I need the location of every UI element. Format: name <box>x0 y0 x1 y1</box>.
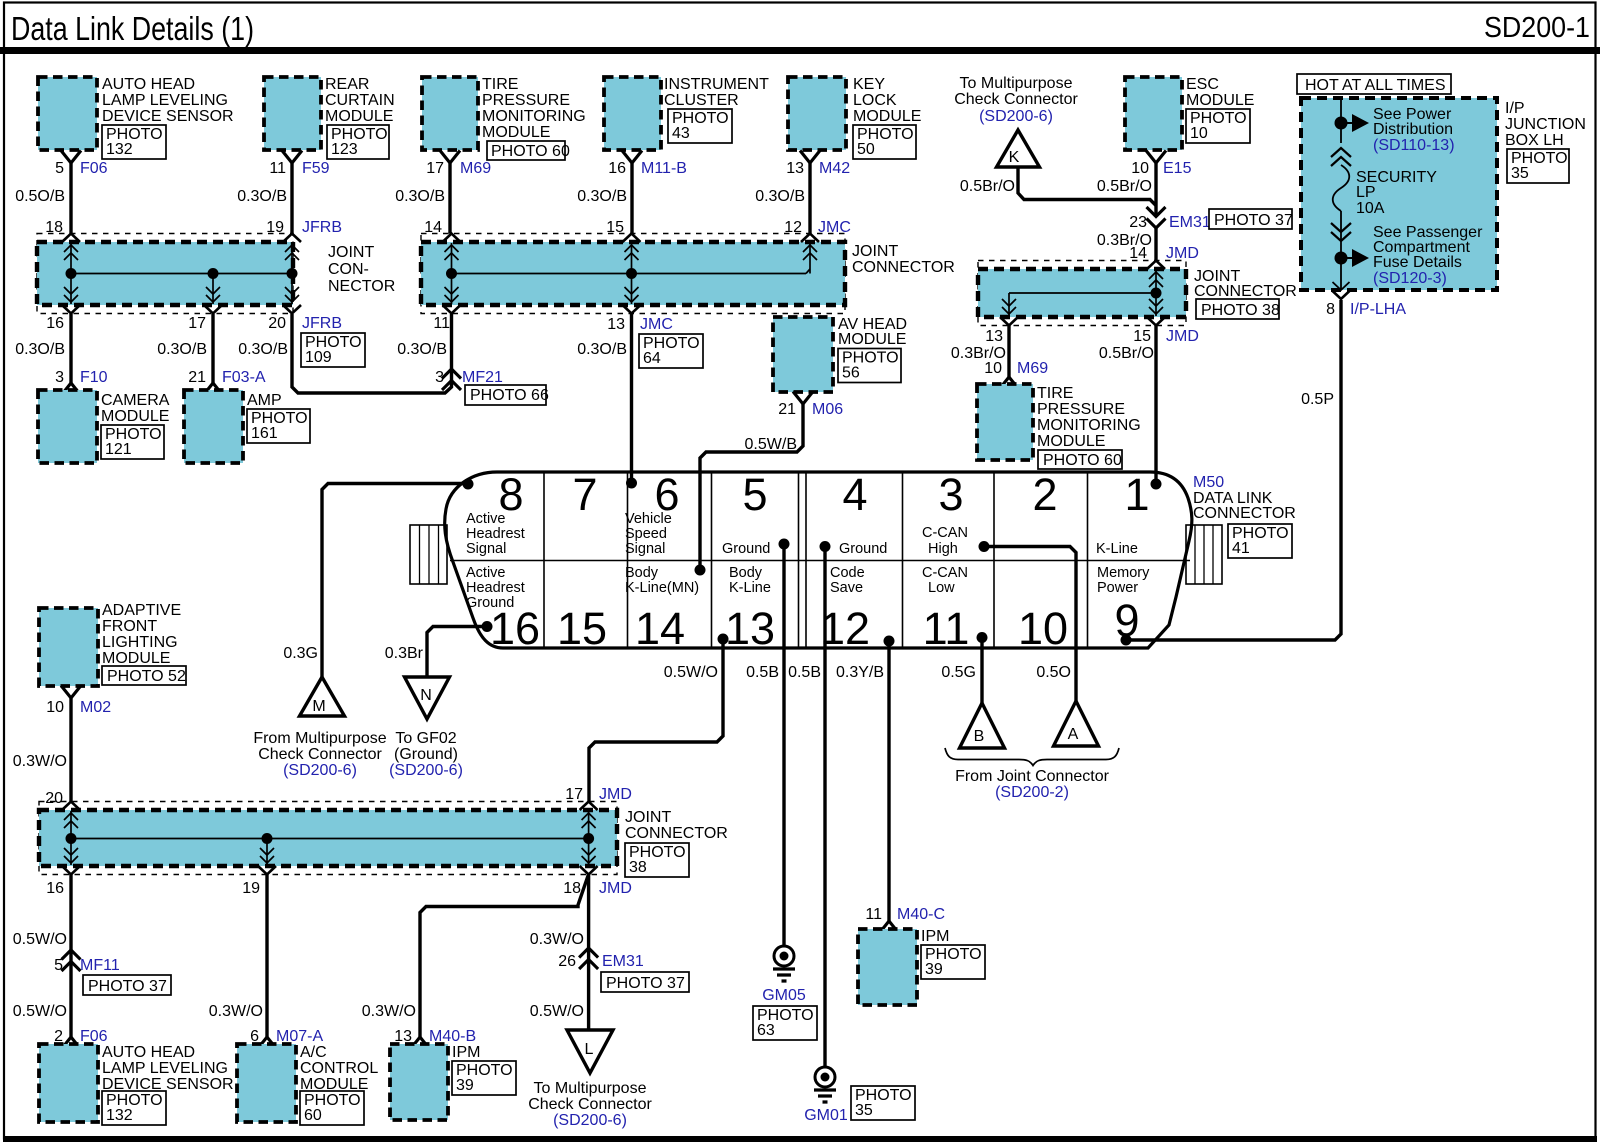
svg-text:0.3W/O: 0.3W/O <box>209 1003 263 1020</box>
svg-text:17: 17 <box>565 786 583 803</box>
svg-text:109: 109 <box>305 349 332 366</box>
svg-text:0.5W/O: 0.5W/O <box>664 664 718 681</box>
joint connector JMD (bottom), PHOTO 38 <box>39 802 728 878</box>
wire 0.3W/O from JMD pin 18 to EM31 pin 26 <box>530 875 589 1031</box>
wire 0.5W/O joint connector pin 16 to MF11 <box>13 875 71 1038</box>
svg-text:10: 10 <box>46 699 64 716</box>
svg-text:REAR: REAR <box>325 76 369 93</box>
svg-text:MODULE: MODULE <box>325 108 393 125</box>
svg-text:Distribution: Distribution <box>1373 121 1453 138</box>
svg-text:14: 14 <box>1129 245 1147 262</box>
wire 0.3W/O joint connector pin 19 to M07-A <box>209 875 267 1038</box>
svg-text:Ground: Ground <box>722 541 770 557</box>
svg-text:E15: E15 <box>1163 160 1192 177</box>
svg-text:Code: Code <box>830 565 865 581</box>
svg-text:MODULE: MODULE <box>838 331 906 348</box>
module IPM (M40-C), PHOTO 39 <box>858 928 985 1005</box>
svg-text:0.5B: 0.5B <box>788 664 821 681</box>
wire 0.5Br/O from E15 down to EM31 pin 23 <box>1097 163 1156 217</box>
wire 0.5B from DLC pin 4 to GM01 <box>788 547 825 1067</box>
svg-text:0.5W/O: 0.5W/O <box>13 931 67 948</box>
svg-text:CURTAIN: CURTAIN <box>325 92 395 109</box>
svg-text:5: 5 <box>54 957 63 974</box>
svg-text:11: 11 <box>433 315 450 332</box>
svg-text:10: 10 <box>1131 160 1149 177</box>
svg-text:B: B <box>974 728 985 745</box>
connector JFRB pin 20, PHOTO 109 <box>268 315 365 367</box>
svg-text:To Multipurpose: To Multipurpose <box>534 1080 647 1097</box>
wire 0.3O/B from M69 to joint connector pin 14 <box>395 163 450 236</box>
svg-text:13: 13 <box>786 160 804 177</box>
svg-text:K-Line(MN): K-Line(MN) <box>625 580 699 596</box>
svg-text:64: 64 <box>643 350 661 367</box>
I/P JUNCTION BOX LH (hot box) <box>1301 98 1497 290</box>
svg-text:LIGHTING: LIGHTING <box>102 634 178 651</box>
svg-text:0.5P: 0.5P <box>1301 391 1334 408</box>
svg-text:I/P: I/P <box>1505 100 1525 117</box>
svg-text:CONNECTOR: CONNECTOR <box>1193 505 1296 522</box>
svg-text:Body: Body <box>729 565 763 581</box>
svg-text:MODULE: MODULE <box>853 108 921 125</box>
svg-text:5: 5 <box>55 160 64 177</box>
wire 0.5W/B from M06 to DLC pin 14 Body K-Line(MN) <box>700 404 803 570</box>
svg-text:High: High <box>928 541 958 557</box>
svg-text:Signal: Signal <box>625 541 665 557</box>
svg-text:18: 18 <box>563 880 581 897</box>
svg-text:LP: LP <box>1356 184 1376 201</box>
svg-text:11: 11 <box>269 160 286 177</box>
module INSTRUMENT CLUSTER <box>604 76 769 150</box>
svg-text:CAMERA: CAMERA <box>101 392 170 409</box>
DLC pin 16 label Active Headrest Ground <box>466 565 525 611</box>
inline connector MF11 pin 5, PHOTO 37 <box>54 950 171 995</box>
svg-text:(SD120-3): (SD120-3) <box>1373 270 1447 287</box>
svg-text:Save: Save <box>830 580 863 596</box>
svg-text:10A: 10A <box>1356 200 1385 217</box>
svg-text:ESC: ESC <box>1186 76 1219 93</box>
svg-text:M11-B: M11-B <box>641 160 687 177</box>
svg-text:21: 21 <box>188 369 206 386</box>
connector M06 pin 21 <box>778 392 843 419</box>
svg-text:Low: Low <box>928 580 955 596</box>
svg-text:60: 60 <box>304 1107 322 1124</box>
connector key hatch (right) <box>1186 525 1222 584</box>
svg-text:43: 43 <box>672 125 690 142</box>
connector key hatch (left) <box>410 525 447 584</box>
svg-text:21: 21 <box>778 401 796 418</box>
svg-text:19: 19 <box>242 880 260 897</box>
connector M11-B pin 16 <box>608 151 687 178</box>
svg-text:35: 35 <box>855 1102 873 1119</box>
svg-text:SD200-1: SD200-1 <box>1484 12 1590 44</box>
DLC pin 14 label Body K-Line(MN) <box>625 565 699 596</box>
svg-text:MONITORING: MONITORING <box>1037 417 1141 434</box>
svg-text:JOINT: JOINT <box>852 243 898 260</box>
wire 0.3O/B from M42 to joint connector JMC pin 12 <box>755 163 851 236</box>
svg-text:0.3O/B: 0.3O/B <box>397 341 447 358</box>
svg-text:123: 123 <box>331 141 358 158</box>
svg-text:LAMP LEVELING: LAMP LEVELING <box>102 92 228 109</box>
wire 0.5O from DLC pin 3 via C-CAN High to A <box>984 547 1076 702</box>
wire 0.3Y/B from DLC pin 12 to M40-C <box>836 641 889 921</box>
svg-text:M69: M69 <box>1017 360 1048 377</box>
connector F03-A pin 21 <box>188 369 266 396</box>
svg-text:0.5W/O: 0.5W/O <box>530 1003 584 1020</box>
svg-text:PHOTO 52: PHOTO 52 <box>107 668 186 685</box>
svg-text:7: 7 <box>572 469 597 520</box>
svg-text:0.5Br/O: 0.5Br/O <box>1097 178 1152 195</box>
svg-text:PHOTO 60: PHOTO 60 <box>1043 452 1122 469</box>
svg-text:Power: Power <box>1097 580 1138 596</box>
module A/C CONTROL MODULE, PHOTO 60 <box>237 1044 378 1125</box>
svg-text:56: 56 <box>842 365 860 382</box>
svg-text:K-Line: K-Line <box>729 580 771 596</box>
svg-text:(SD200-6): (SD200-6) <box>283 762 357 779</box>
svg-text:(SD200-2): (SD200-2) <box>995 784 1069 801</box>
svg-text:I/P-LHA: I/P-LHA <box>1350 301 1406 318</box>
wire 0.3W/O branch from JMD pin 18 to M40-B <box>362 874 589 1037</box>
svg-text:3: 3 <box>938 469 963 520</box>
svg-text:MODULE: MODULE <box>482 124 550 141</box>
svg-text:0.5Br/O: 0.5Br/O <box>960 178 1015 195</box>
joint connector JMC (top middle) <box>421 234 955 314</box>
svg-text:To GF02: To GF02 <box>395 730 456 747</box>
connector JMD pin 17 label <box>565 786 632 803</box>
svg-text:12: 12 <box>820 603 870 654</box>
module IPM (M40-B), PHOTO 39 <box>390 1044 516 1120</box>
svg-text:GM05: GM05 <box>762 987 806 1004</box>
svg-text:JMD: JMD <box>599 880 632 897</box>
module AMP <box>184 390 310 463</box>
svg-text:MODULE: MODULE <box>102 650 170 667</box>
joint connector JFRB (left), PHOTO 109 <box>37 234 395 314</box>
svg-text:(SD200-6): (SD200-6) <box>553 1112 627 1129</box>
DLC pin 6 label Vehicle Speed Signal <box>625 511 672 557</box>
svg-text:CON-: CON- <box>328 261 369 278</box>
svg-text:MF21: MF21 <box>462 369 503 386</box>
module KEY LOCK MODULE <box>788 76 921 159</box>
svg-text:TIRE: TIRE <box>1037 385 1073 402</box>
module CAMERA MODULE <box>38 390 170 463</box>
connector F59 pin 11 <box>269 151 329 178</box>
wire 0.3O/B joint connector pin 17 to F03-A <box>157 314 213 383</box>
connector E15 pin 10 <box>1131 151 1191 178</box>
svg-text:38: 38 <box>629 859 647 876</box>
svg-text:JMD: JMD <box>599 786 632 803</box>
svg-text:Data Link Details (1): Data Link Details (1) <box>11 10 254 47</box>
svg-text:M02: M02 <box>80 699 111 716</box>
connector F06 pin 5 <box>55 151 108 178</box>
wire 0.5G from DLC pin 11 to B <box>941 638 982 704</box>
svg-text:0.3O/B: 0.3O/B <box>238 341 288 358</box>
svg-text:11: 11 <box>865 906 882 923</box>
svg-text:63: 63 <box>757 1022 775 1039</box>
svg-text:BOX LH: BOX LH <box>1505 132 1564 149</box>
node: See Power Distribution (SD110-13) <box>1335 106 1455 154</box>
svg-text:M50: M50 <box>1193 474 1224 491</box>
label I/P JUNCTION BOX LH, PHOTO 35 <box>1505 100 1586 183</box>
module AUTO HEAD LAMP LEVELING DEVICE SENSOR (bottom), PHOTO 132 <box>39 1044 234 1125</box>
svg-text:39: 39 <box>456 1077 474 1094</box>
svg-text:0.3O/B: 0.3O/B <box>577 341 627 358</box>
connector M07-A pin 6 <box>250 1028 323 1050</box>
svg-text:GM01: GM01 <box>804 1107 848 1124</box>
wire 0.5O/B from F06 to JFRB pin 18 <box>15 163 71 236</box>
svg-text:K-Line: K-Line <box>1096 541 1138 557</box>
svg-text:DEVICE SENSOR: DEVICE SENSOR <box>102 108 234 125</box>
svg-text:16: 16 <box>46 880 64 897</box>
svg-text:To Multipurpose: To Multipurpose <box>960 75 1073 92</box>
svg-text:A/C: A/C <box>300 1044 327 1061</box>
svg-text:10: 10 <box>1190 125 1208 142</box>
svg-text:0.3O/B: 0.3O/B <box>157 341 207 358</box>
node: See Passenger Compartment Fuse Details (SD120-3) <box>1335 224 1484 287</box>
svg-text:CONNECTOR: CONNECTOR <box>1194 283 1297 300</box>
svg-text:41: 41 <box>1232 540 1250 557</box>
svg-text:(Ground): (Ground) <box>394 746 458 763</box>
svg-text:KEY: KEY <box>853 76 885 93</box>
svg-text:IPM: IPM <box>452 1044 480 1061</box>
connector JMC pin 13, PHOTO 64 <box>607 316 703 368</box>
connector M40-B pin 13 <box>394 1028 476 1050</box>
svg-text:JOINT: JOINT <box>625 809 671 826</box>
module TIRE PRESSURE MONITORING MODULE (top) <box>422 76 586 160</box>
svg-text:14: 14 <box>635 603 685 654</box>
svg-text:CONNECTOR: CONNECTOR <box>852 259 955 276</box>
wire 0.5W/O from EM31 to L <box>530 1003 584 1020</box>
svg-text:0.5G: 0.5G <box>941 664 976 681</box>
svg-text:0.3O/B: 0.3O/B <box>755 188 805 205</box>
svg-text:(SD200-6): (SD200-6) <box>389 762 463 779</box>
connector M42 pin 13 <box>786 151 850 178</box>
svg-text:FRONT: FRONT <box>102 618 157 635</box>
svg-text:Headrest: Headrest <box>466 580 525 596</box>
svg-text:16: 16 <box>46 315 64 332</box>
svg-text:PRESSURE: PRESSURE <box>482 92 570 109</box>
DLC pin 11 label C-CAN Low <box>922 565 968 596</box>
svg-text:JMD: JMD <box>1166 328 1199 345</box>
svg-text:JOINT: JOINT <box>328 244 374 261</box>
svg-text:20: 20 <box>45 790 63 807</box>
off-page connector B <box>960 703 1005 748</box>
module AV HEAD MODULE <box>773 316 907 392</box>
svg-text:PHOTO 66: PHOTO 66 <box>470 387 549 404</box>
ground GM01, PHOTO 35 <box>804 1067 915 1124</box>
svg-text:132: 132 <box>106 1107 133 1124</box>
ground GM05, PHOTO 63 <box>753 946 817 1040</box>
connector JMD pin 18 label <box>563 880 632 897</box>
svg-text:Active: Active <box>466 565 506 581</box>
svg-text:23: 23 <box>1129 214 1147 231</box>
svg-text:161: 161 <box>251 425 278 442</box>
svg-text:0.3Y/B: 0.3Y/B <box>836 664 884 681</box>
svg-text:3: 3 <box>435 369 444 386</box>
svg-text:M40-C: M40-C <box>897 906 945 923</box>
DLC pin 13 label Body K-Line <box>729 565 771 596</box>
svg-text:0.3G: 0.3G <box>283 645 318 662</box>
svg-text:JMD: JMD <box>1166 245 1199 262</box>
svg-text:0.3W/O: 0.3W/O <box>362 1003 416 1020</box>
module REAR CURTAIN MODULE <box>264 76 395 159</box>
svg-text:AMP: AMP <box>247 392 282 409</box>
wire 0.3W/O from M02 to joint connector JMD pin 20 <box>13 698 71 807</box>
svg-text:PHOTO 37: PHOTO 37 <box>88 978 167 995</box>
inline connector EM31 pin 26, PHOTO 37 <box>558 948 689 992</box>
fuse SECURITY LP 10A <box>1331 100 1437 252</box>
svg-text:Check Connector: Check Connector <box>258 746 382 763</box>
wire 0.5B from DLC pin 5 to GM05 <box>746 544 784 946</box>
label HOT AT ALL TIMES <box>1297 74 1451 94</box>
svg-text:16: 16 <box>608 160 626 177</box>
svg-text:From Joint Connector: From Joint Connector <box>955 768 1110 785</box>
svg-text:Speed: Speed <box>625 526 667 542</box>
wire 0.3O/B from JMC pin 13 down to DLC pin 6 <box>577 314 631 483</box>
svg-text:N: N <box>420 687 432 704</box>
module AUTO HEAD LAMP LEVELING DEVICE SENSOR (top) <box>38 76 234 159</box>
svg-text:0.3O/B: 0.3O/B <box>15 341 65 358</box>
svg-text:Ground: Ground <box>839 541 887 557</box>
svg-text:Fuse Details: Fuse Details <box>1373 254 1462 271</box>
svg-text:HOT AT ALL TIMES: HOT AT ALL TIMES <box>1305 77 1446 94</box>
svg-text:11: 11 <box>923 603 970 654</box>
connector F06 pin 2 <box>54 1028 108 1050</box>
svg-text:CONNECTOR: CONNECTOR <box>625 825 728 842</box>
svg-text:CONTROL: CONTROL <box>300 1060 378 1077</box>
wire 0.5P from I/P-LHA down to DLC pin 9 <box>1126 300 1341 640</box>
svg-text:3: 3 <box>55 369 64 386</box>
svg-text:PHOTO 37: PHOTO 37 <box>606 975 685 992</box>
svg-text:NECTOR: NECTOR <box>328 278 395 295</box>
svg-text:L: L <box>585 1041 594 1058</box>
svg-text:IPM: IPM <box>921 928 949 945</box>
svg-text:20: 20 <box>268 315 286 332</box>
svg-text:15: 15 <box>557 603 607 654</box>
wire 0.3O/B joint connector pin 11 label <box>397 315 450 358</box>
svg-text:Ground: Ground <box>466 595 514 611</box>
off-page connector N: To GF02 (Ground) (SD200-6) <box>389 677 463 779</box>
svg-text:Signal: Signal <box>466 541 506 557</box>
svg-text:JFRB: JFRB <box>302 219 342 236</box>
DLC pin numbers bottom row <box>490 595 1140 654</box>
svg-text:26: 26 <box>558 953 576 970</box>
svg-text:PHOTO 60: PHOTO 60 <box>491 143 570 160</box>
junction dots on DLC pins <box>463 478 1162 647</box>
wire 0.3O/B joint connector pin 16 to F10 <box>15 314 71 383</box>
svg-text:0.5O: 0.5O <box>1036 664 1071 681</box>
svg-text:0.3W/O: 0.3W/O <box>530 931 584 948</box>
off-page connector M: From Multipurpose Check Connector (SD200-6) <box>253 677 386 779</box>
svg-text:0.5Br/O: 0.5Br/O <box>1099 345 1154 362</box>
module TIRE PRESSURE MONITORING MODULE (right) <box>977 384 1141 469</box>
svg-text:132: 132 <box>106 141 133 158</box>
wire 0.3O/B from M11-B to joint connector pin 15 <box>577 163 632 236</box>
svg-text:10: 10 <box>1018 603 1068 654</box>
wire 0.5W/O from DLC pin 13 to joint connector JMD pin 17 <box>589 639 723 802</box>
svg-text:AUTO HEAD: AUTO HEAD <box>102 76 195 93</box>
DLC pin 9 label Memory Power <box>1097 565 1150 596</box>
svg-text:4: 4 <box>842 469 867 520</box>
wire 0.3O/B from F59 to JFRB pin 19 <box>237 163 342 236</box>
svg-text:PHOTO 38: PHOTO 38 <box>1201 302 1280 319</box>
svg-text:(SD110-13): (SD110-13) <box>1373 137 1455 154</box>
DLC pin 3 label C-CAN High <box>922 525 968 557</box>
DLC pin numbers top row <box>498 469 1149 520</box>
wire 0.3O/B from JFRB pin 20 to MF21 pin 3 <box>238 314 451 393</box>
svg-text:50: 50 <box>857 141 875 158</box>
svg-text:F03-A: F03-A <box>222 369 266 386</box>
wire 0.5Br/O joint connector JMD pin 15 down to DLC pin 1 <box>1099 326 1199 485</box>
svg-text:TIRE: TIRE <box>482 76 518 93</box>
svg-text:A: A <box>1068 726 1079 743</box>
module ADAPTIVE FRONT LIGHTING MODULE, PHOTO 52 <box>39 602 186 686</box>
svg-text:JMC: JMC <box>640 316 673 333</box>
connector I/P-LHA pin 8 <box>1326 258 1406 318</box>
wire 0.3Br/O joint connector pin 13 to M69 pin 10 <box>951 326 1009 378</box>
svg-text:C-CAN: C-CAN <box>922 565 968 581</box>
brace From Joint Connector (SD200-2) <box>945 748 1119 801</box>
joint connector JMD (right), PHOTO 38 <box>978 261 1297 326</box>
svg-text:1: 1 <box>1124 469 1149 520</box>
svg-text:M: M <box>312 698 325 715</box>
svg-text:F06: F06 <box>80 160 108 177</box>
svg-text:10: 10 <box>984 360 1002 377</box>
svg-text:JFRB: JFRB <box>302 315 342 332</box>
inline connector EM31 pin 23, PHOTO 37 <box>1129 207 1293 231</box>
svg-text:K: K <box>1009 149 1020 166</box>
svg-text:15: 15 <box>1133 328 1151 345</box>
svg-text:Check Connector: Check Connector <box>954 91 1078 108</box>
off-page connector K: To Multipurpose Check Connector (SD200-6) <box>954 75 1078 167</box>
svg-text:0.5W/B: 0.5W/B <box>745 436 797 453</box>
DLC cell dividers <box>450 472 1190 648</box>
wire 0.3Br from N to DLC pin 16 <box>385 627 487 678</box>
svg-text:0.3W/O: 0.3W/O <box>13 753 67 770</box>
svg-text:M42: M42 <box>819 160 850 177</box>
inline connector MF21 pin 3, PHOTO 66 <box>435 369 549 405</box>
wire 0.5W/O from MF11 to F06 pin 2 <box>13 1003 67 1020</box>
connector M02 pin 10 <box>46 686 111 717</box>
svg-text:PRESSURE: PRESSURE <box>1037 401 1125 418</box>
svg-text:C-CAN: C-CAN <box>922 525 968 541</box>
svg-text:MODULE: MODULE <box>101 408 169 425</box>
svg-text:2: 2 <box>1032 469 1057 520</box>
svg-text:0.3O/B: 0.3O/B <box>395 188 445 205</box>
svg-text:0.3O/B: 0.3O/B <box>577 188 627 205</box>
svg-text:ADAPTIVE: ADAPTIVE <box>102 602 181 619</box>
svg-text:From Multipurpose: From Multipurpose <box>253 730 386 747</box>
svg-text:Check Connector: Check Connector <box>528 1096 652 1113</box>
svg-text:AUTO HEAD: AUTO HEAD <box>102 1044 195 1061</box>
svg-text:JMC: JMC <box>818 219 851 236</box>
wire 0.3Br/O from EM31 to joint connector JMD pin 14 <box>1097 228 1199 262</box>
svg-text:F10: F10 <box>80 369 108 386</box>
svg-text:13: 13 <box>985 328 1003 345</box>
connector F10 pin 3 <box>55 369 108 396</box>
svg-text:Active: Active <box>466 511 506 527</box>
svg-text:35: 35 <box>1511 165 1529 182</box>
svg-text:8: 8 <box>1326 301 1335 318</box>
DLC pin 12 label Code Save <box>830 565 865 596</box>
svg-text:M69: M69 <box>460 160 491 177</box>
svg-text:Headrest: Headrest <box>466 526 525 542</box>
svg-text:EM31: EM31 <box>602 953 644 970</box>
svg-text:Memory: Memory <box>1097 565 1150 581</box>
label M50 DATA LINK CONNECTOR, PHOTO 41 <box>1193 474 1296 558</box>
wire 0.5Br/O from K joining E15 wire <box>960 167 1156 206</box>
connector M40-C pin 11 <box>865 906 945 934</box>
svg-text:MODULE: MODULE <box>1037 433 1105 450</box>
svg-text:MODULE: MODULE <box>1186 92 1254 109</box>
